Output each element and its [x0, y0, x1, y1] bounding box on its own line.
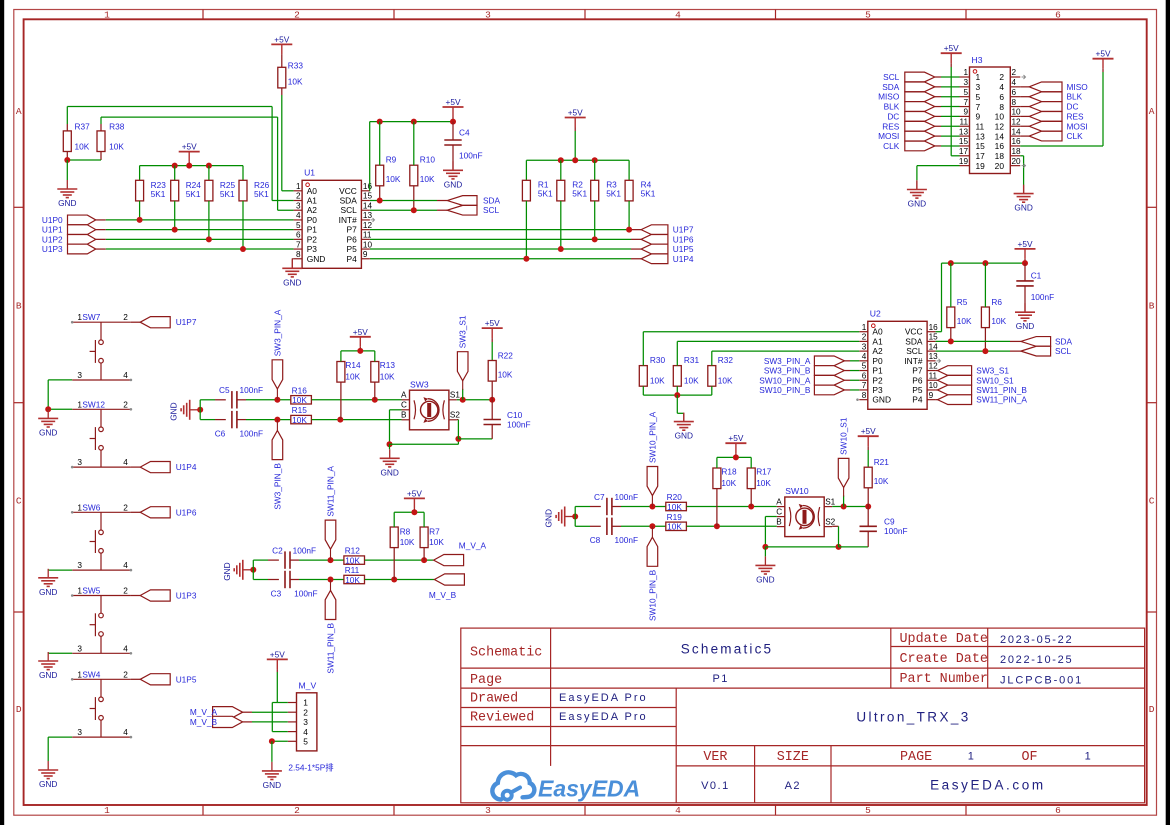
svg-text:SCL: SCL — [1055, 346, 1072, 356]
junction — [982, 348, 988, 354]
junction — [572, 157, 578, 163]
resistor R22 — [488, 351, 513, 382]
svg-text:2: 2 — [294, 10, 300, 21]
wire SW10 S2 — [832, 525, 838, 527]
svg-text:A2: A2 — [307, 205, 318, 215]
svg-text:3: 3 — [296, 201, 301, 210]
svg-text:100nF: 100nF — [294, 589, 318, 599]
wire U1P0 net — [96, 219, 106, 221]
junction — [455, 436, 461, 442]
net flag MISO — [1029, 82, 1088, 92]
wire SW3 S2 — [457, 419, 459, 421]
junction — [172, 163, 178, 169]
wire R30 to U2 A0 — [642, 332, 644, 366]
svg-text:10K: 10K — [667, 502, 682, 512]
IC U2 — [859, 308, 938, 409]
svg-text:S1: S1 — [825, 497, 835, 506]
wire R24 bottom to P1 net — [174, 201, 176, 230]
switch SW4 — [72, 669, 131, 737]
svg-text:DC: DC — [1067, 102, 1079, 112]
wire to flag U1P3 — [131, 595, 140, 597]
svg-text:7: 7 — [862, 381, 867, 390]
net flag SW3_PIN_B — [764, 366, 845, 376]
svg-text:5: 5 — [296, 221, 301, 230]
svg-text:Part Number: Part Number — [900, 672, 988, 687]
net flag SDA — [882, 82, 935, 92]
junction — [982, 260, 988, 266]
svg-text:7: 7 — [963, 98, 968, 107]
resistor R20 — [666, 492, 687, 512]
net flag SCL — [447, 205, 499, 215]
svg-text:C1: C1 — [1031, 271, 1042, 281]
wire R24 top — [174, 166, 176, 181]
svg-text:GND: GND — [39, 427, 57, 437]
svg-text:12: 12 — [1012, 117, 1022, 126]
frame tick — [202, 805, 204, 815]
svg-text:14: 14 — [1012, 127, 1022, 136]
capacitor C2 — [272, 546, 316, 569]
svg-text:SW3: SW3 — [410, 380, 429, 390]
switch SW12 — [72, 399, 131, 467]
svg-text:+5V: +5V — [1096, 49, 1111, 59]
svg-text:100nF: 100nF — [1031, 292, 1055, 302]
frame tick — [584, 805, 586, 815]
svg-text:10K: 10K — [345, 575, 360, 585]
net flag RES — [882, 121, 935, 131]
net flag SW11_PIN_A — [938, 395, 1028, 405]
svg-text:8: 8 — [999, 102, 1004, 112]
power +5V — [482, 318, 503, 338]
svg-text:Ultron_TRX_3: Ultron_TRX_3 — [856, 710, 970, 725]
wire R5 bottom — [950, 328, 952, 342]
svg-text:10: 10 — [995, 112, 1005, 122]
svg-text:BLK: BLK — [884, 102, 900, 112]
resistor R6 — [981, 297, 1006, 328]
net flag SCL — [1021, 346, 1072, 356]
svg-text:GND: GND — [39, 670, 57, 680]
svg-text:11: 11 — [976, 121, 985, 131]
svg-text:B: B — [16, 300, 22, 311]
svg-text:R13: R13 — [380, 360, 396, 370]
svg-text:16: 16 — [1012, 137, 1022, 146]
junction — [626, 227, 632, 233]
svg-text:2: 2 — [296, 192, 301, 201]
svg-text:12: 12 — [929, 362, 939, 371]
resistor R38 — [97, 122, 125, 152]
svg-text:GND: GND — [169, 402, 179, 420]
wire U1P6 net — [370, 238, 631, 240]
svg-text:A: A — [776, 497, 782, 506]
svg-text:2023-05-22: 2023-05-22 — [1000, 634, 1073, 646]
svg-text:P2: P2 — [872, 375, 883, 385]
no-connect — [71, 594, 74, 597]
svg-text:CLK: CLK — [883, 141, 900, 151]
svg-text:MISO: MISO — [1067, 82, 1089, 92]
svg-text:GND: GND — [544, 509, 554, 527]
svg-text:R6: R6 — [991, 297, 1002, 307]
svg-text:C5: C5 — [219, 385, 230, 395]
junction — [328, 557, 334, 563]
junction — [592, 157, 598, 163]
svg-text:9: 9 — [929, 391, 934, 400]
svg-text:SCL: SCL — [883, 72, 900, 82]
svg-text:R5: R5 — [957, 297, 968, 307]
net flag U1P6 — [140, 507, 197, 518]
capacitor C4 — [444, 128, 482, 161]
title block table — [461, 628, 1145, 803]
ground — [544, 507, 576, 528]
svg-text:3: 3 — [303, 717, 308, 727]
svg-text:+5V: +5V — [274, 34, 289, 44]
svg-text:U1P4: U1P4 — [673, 254, 694, 264]
svg-text:7: 7 — [976, 102, 981, 112]
wire H3 left pin — [935, 106, 941, 108]
power +5V — [179, 142, 200, 162]
svg-text:6: 6 — [296, 231, 301, 240]
junction — [649, 504, 655, 510]
junction — [411, 119, 417, 125]
resistor R11 — [344, 565, 365, 585]
no-connect — [71, 321, 74, 324]
wire gnd bus to S2 — [765, 546, 838, 548]
svg-text:MOSI: MOSI — [1067, 121, 1088, 131]
wire U1 GND pin8 — [292, 259, 293, 269]
switch SW5 — [72, 586, 131, 654]
svg-text:CLK: CLK — [1067, 131, 1084, 141]
svg-text:U1P6: U1P6 — [176, 507, 197, 517]
net flag U1P1 — [42, 225, 96, 235]
svg-text:R32: R32 — [718, 355, 734, 365]
power +5V — [725, 433, 746, 453]
net flag DC — [887, 111, 934, 121]
svg-text:15: 15 — [959, 137, 969, 146]
svg-text:+5V: +5V — [270, 649, 285, 659]
wire U1P4 net — [370, 258, 631, 260]
wire H3 left pin — [935, 135, 941, 137]
wire +5V to M_V pin1 — [276, 669, 278, 672]
svg-text:OF: OF — [1022, 750, 1038, 765]
frame tick — [393, 10, 395, 20]
svg-text:10K: 10K — [109, 142, 124, 152]
wire to flag U1P5 — [131, 678, 140, 680]
svg-text:10: 10 — [1012, 108, 1022, 117]
junction — [841, 504, 847, 510]
svg-text:BLK: BLK — [1067, 92, 1083, 102]
svg-text:DC: DC — [887, 111, 899, 121]
wire H3 right pin — [1020, 115, 1029, 117]
svg-text:4: 4 — [675, 805, 681, 816]
svg-text:4: 4 — [123, 727, 128, 737]
frame tick — [1147, 402, 1157, 404]
wire H3 right pin — [1020, 86, 1029, 88]
junction — [274, 397, 280, 403]
wire R9 bottom to SDA — [379, 186, 381, 201]
capacitor C8 — [590, 518, 638, 545]
svg-text:18: 18 — [995, 151, 1005, 161]
svg-text:5K1: 5K1 — [606, 188, 621, 198]
wire R37 top to U1 pin2 A1 — [66, 124, 68, 131]
junction — [421, 557, 427, 563]
resistor R5 — [947, 297, 972, 328]
ground — [262, 762, 282, 790]
wire +5V bus — [359, 347, 361, 351]
junction — [274, 417, 280, 423]
svg-text:SW10_S1: SW10_S1 — [976, 375, 1014, 385]
wire R3 top — [594, 160, 596, 180]
svg-text:C4: C4 — [459, 128, 470, 138]
svg-text:10K: 10K — [721, 478, 736, 488]
junction — [948, 338, 954, 344]
svg-text:100nF: 100nF — [459, 151, 483, 161]
frame tick — [14, 402, 24, 404]
svg-text:EasyEDA.com: EasyEDA.com — [930, 778, 1046, 793]
resistor R32 — [708, 355, 734, 386]
capacitor C7 — [594, 492, 638, 515]
svg-text:P4: P4 — [912, 395, 923, 405]
svg-text:2: 2 — [1012, 68, 1017, 77]
rotary encoder SW10 — [776, 486, 835, 537]
svg-text:P0: P0 — [307, 215, 318, 225]
svg-text:10K: 10K — [650, 376, 665, 386]
ground — [38, 761, 58, 789]
wire to GND — [66, 160, 68, 180]
svg-text:5K1: 5K1 — [538, 188, 553, 198]
svg-text:10K: 10K — [991, 316, 1006, 326]
svg-text:C2: C2 — [272, 546, 283, 556]
wire VCC bus — [370, 121, 453, 123]
svg-text:SW10_PIN_A: SW10_PIN_A — [647, 411, 657, 463]
svg-text:SW11_PIN_B: SW11_PIN_B — [976, 385, 1027, 395]
no-connect — [1022, 75, 1026, 79]
net flag U1P4 — [641, 254, 694, 264]
wire R13 bottom to A net — [374, 382, 376, 400]
ground — [380, 449, 400, 477]
svg-text:5: 5 — [865, 10, 871, 21]
net flag SCL — [883, 72, 935, 82]
svg-text:10: 10 — [929, 381, 939, 390]
wire C2 right to R12 — [290, 559, 299, 561]
resistor R16 — [291, 385, 312, 405]
ground — [443, 161, 463, 189]
svg-text:4: 4 — [675, 10, 681, 21]
capacitor C4 wiring — [452, 122, 454, 140]
wire SW3 C to gnd bus — [390, 409, 402, 411]
wire to GND — [676, 395, 678, 413]
resistor R4 — [625, 180, 656, 201]
wire C6 right to R15 — [237, 419, 246, 421]
svg-text:M_V_A: M_V_A — [459, 541, 487, 551]
svg-text:SW3_PIN_B: SW3_PIN_B — [272, 463, 282, 510]
junction — [558, 246, 564, 252]
svg-text:C10: C10 — [507, 410, 523, 420]
capacitor C1 wiring — [1024, 263, 1026, 281]
wire to flag U1P6 — [131, 511, 140, 513]
svg-text:A1: A1 — [307, 196, 318, 206]
svg-text:EasyEDA Pro: EasyEDA Pro — [559, 711, 648, 723]
frame tick — [775, 10, 777, 20]
svg-text:U1P3: U1P3 — [42, 244, 63, 254]
junction — [206, 163, 212, 169]
wire H3 right pin — [1020, 135, 1029, 137]
svg-text:13: 13 — [363, 211, 373, 220]
net flag CLK — [883, 141, 935, 151]
junction — [733, 454, 739, 460]
net flag U1P7 — [140, 317, 197, 328]
svg-text:R16: R16 — [292, 385, 308, 395]
svg-text:GND: GND — [675, 431, 693, 441]
wire R22/C10 stub — [491, 400, 493, 420]
junction — [197, 407, 203, 413]
svg-text:A1: A1 — [872, 336, 883, 346]
svg-text:10K: 10K — [756, 478, 771, 488]
svg-text:GND: GND — [756, 574, 774, 584]
svg-text:5: 5 — [976, 92, 981, 102]
wire R7 bottom to A net — [423, 548, 425, 561]
wire C3 right to R11 — [290, 579, 299, 581]
ground — [755, 556, 775, 584]
svg-text:12: 12 — [363, 221, 373, 230]
frame tick — [1147, 206, 1157, 208]
wire +5V bus — [413, 508, 415, 512]
wire H3 left pin — [935, 115, 941, 117]
svg-text:U1: U1 — [304, 167, 315, 177]
svg-text:R19: R19 — [667, 512, 683, 522]
svg-text:5K1: 5K1 — [254, 189, 269, 199]
svg-text:4: 4 — [123, 370, 128, 380]
wire SDA net — [370, 200, 437, 202]
svg-text:7: 7 — [296, 240, 301, 249]
svg-text:R31: R31 — [684, 355, 700, 365]
svg-text:SW11_PIN_A: SW11_PIN_A — [326, 466, 336, 517]
svg-text:3: 3 — [77, 370, 82, 380]
svg-text:P1: P1 — [307, 225, 318, 235]
svg-text:6: 6 — [862, 371, 867, 380]
svg-text:14: 14 — [995, 131, 1005, 141]
wire R15 to SW3 B — [312, 419, 402, 421]
svg-text:6: 6 — [1055, 805, 1061, 816]
wire R4 top — [628, 160, 630, 180]
svg-text:+5V: +5V — [485, 318, 500, 328]
wire C5 right to R16 — [237, 399, 246, 401]
svg-text:C7: C7 — [594, 492, 605, 502]
wire R2 top — [560, 160, 562, 180]
wire R3 bottom to U1P6 — [594, 201, 596, 239]
net flag MOSI — [1029, 121, 1088, 131]
no-connect — [371, 218, 375, 222]
wire U1P5 net — [370, 248, 631, 250]
svg-text:19: 19 — [959, 157, 969, 166]
capacitor C3 — [271, 571, 318, 599]
svg-text:P3: P3 — [307, 244, 318, 254]
power +5V — [404, 488, 425, 508]
svg-text:20: 20 — [995, 161, 1005, 171]
power +5V — [350, 327, 371, 347]
svg-text:SW11_PIN_A: SW11_PIN_A — [976, 395, 1027, 405]
svg-text:4: 4 — [123, 457, 128, 467]
svg-text:1: 1 — [862, 323, 867, 332]
svg-text:R18: R18 — [721, 467, 737, 477]
svg-text:3: 3 — [77, 643, 82, 653]
svg-text:10K: 10K — [684, 376, 699, 386]
svg-text:GND: GND — [1014, 203, 1032, 213]
svg-text:10K: 10K — [386, 174, 401, 184]
svg-text:GND: GND — [307, 254, 326, 264]
resistor R3 — [591, 180, 622, 201]
svg-text:2: 2 — [123, 312, 128, 322]
power +5V — [1015, 239, 1036, 259]
svg-text:R9: R9 — [386, 155, 397, 165]
ground — [38, 652, 58, 680]
svg-text:VER: VER — [703, 750, 727, 765]
svg-text:P4: P4 — [347, 254, 358, 264]
no-connect — [130, 736, 133, 739]
junction — [649, 523, 655, 529]
svg-text:2.54-1*5P排: 2.54-1*5P排 — [288, 763, 333, 773]
wire to flag U1P7 — [131, 321, 140, 323]
svg-text:8: 8 — [1012, 98, 1017, 107]
resistor R33 — [278, 61, 304, 88]
svg-text:GND: GND — [1016, 321, 1034, 331]
net flag CLK — [1029, 131, 1083, 141]
svg-text:C: C — [1149, 495, 1155, 506]
wire R26 bottom to P3 net — [242, 201, 244, 249]
wire C7 right to R20 — [612, 506, 621, 508]
frame tick — [14, 206, 24, 208]
wire bus to C9 bottom — [839, 546, 869, 548]
svg-text:R37: R37 — [75, 122, 91, 132]
svg-text:GND: GND — [872, 395, 891, 405]
svg-text:8: 8 — [862, 391, 867, 400]
svg-text:10K: 10K — [957, 316, 972, 326]
svg-text:10K: 10K — [345, 371, 360, 381]
junction — [391, 577, 397, 583]
ground — [169, 400, 201, 421]
wire R4 bottom to U1P7 — [628, 201, 630, 230]
ground — [222, 560, 254, 581]
junction — [372, 397, 378, 403]
no-connect — [71, 511, 74, 514]
net flag MOSI — [878, 131, 935, 141]
svg-text:R21: R21 — [874, 457, 890, 467]
svg-text:+5V: +5V — [446, 97, 461, 107]
svg-text:2: 2 — [123, 399, 128, 409]
wire H3 left pin — [935, 76, 941, 78]
wire gnd bus to S2/C10 — [390, 443, 459, 445]
wire R6 top — [984, 263, 986, 307]
svg-text:RES: RES — [1067, 111, 1085, 121]
wire SW6 pin3 to GND — [48, 569, 72, 571]
svg-text:GND: GND — [263, 780, 281, 790]
net flag U1P3 — [42, 244, 96, 254]
svg-text:EasyEDA Pro: EasyEDA Pro — [559, 692, 648, 704]
svg-text:U1P3: U1P3 — [176, 591, 197, 601]
wire S2 bus to C10 bottom — [458, 438, 492, 440]
svg-text:16: 16 — [929, 323, 939, 332]
wire U2 P right pin — [936, 389, 938, 391]
net flag U1P7 — [641, 225, 694, 235]
frame tick — [393, 805, 395, 815]
svg-text:10K: 10K — [292, 415, 307, 425]
junction — [714, 523, 720, 529]
svg-text:+5V: +5V — [182, 142, 197, 152]
wire R23 bottom to P0 net — [139, 201, 141, 220]
svg-text:14: 14 — [929, 342, 939, 351]
wire R8 top — [393, 512, 395, 527]
svg-text:VCC: VCC — [905, 327, 923, 337]
resistor R1 — [522, 180, 553, 201]
net flag U1P5 — [140, 674, 197, 685]
resistor R31 — [673, 355, 699, 386]
